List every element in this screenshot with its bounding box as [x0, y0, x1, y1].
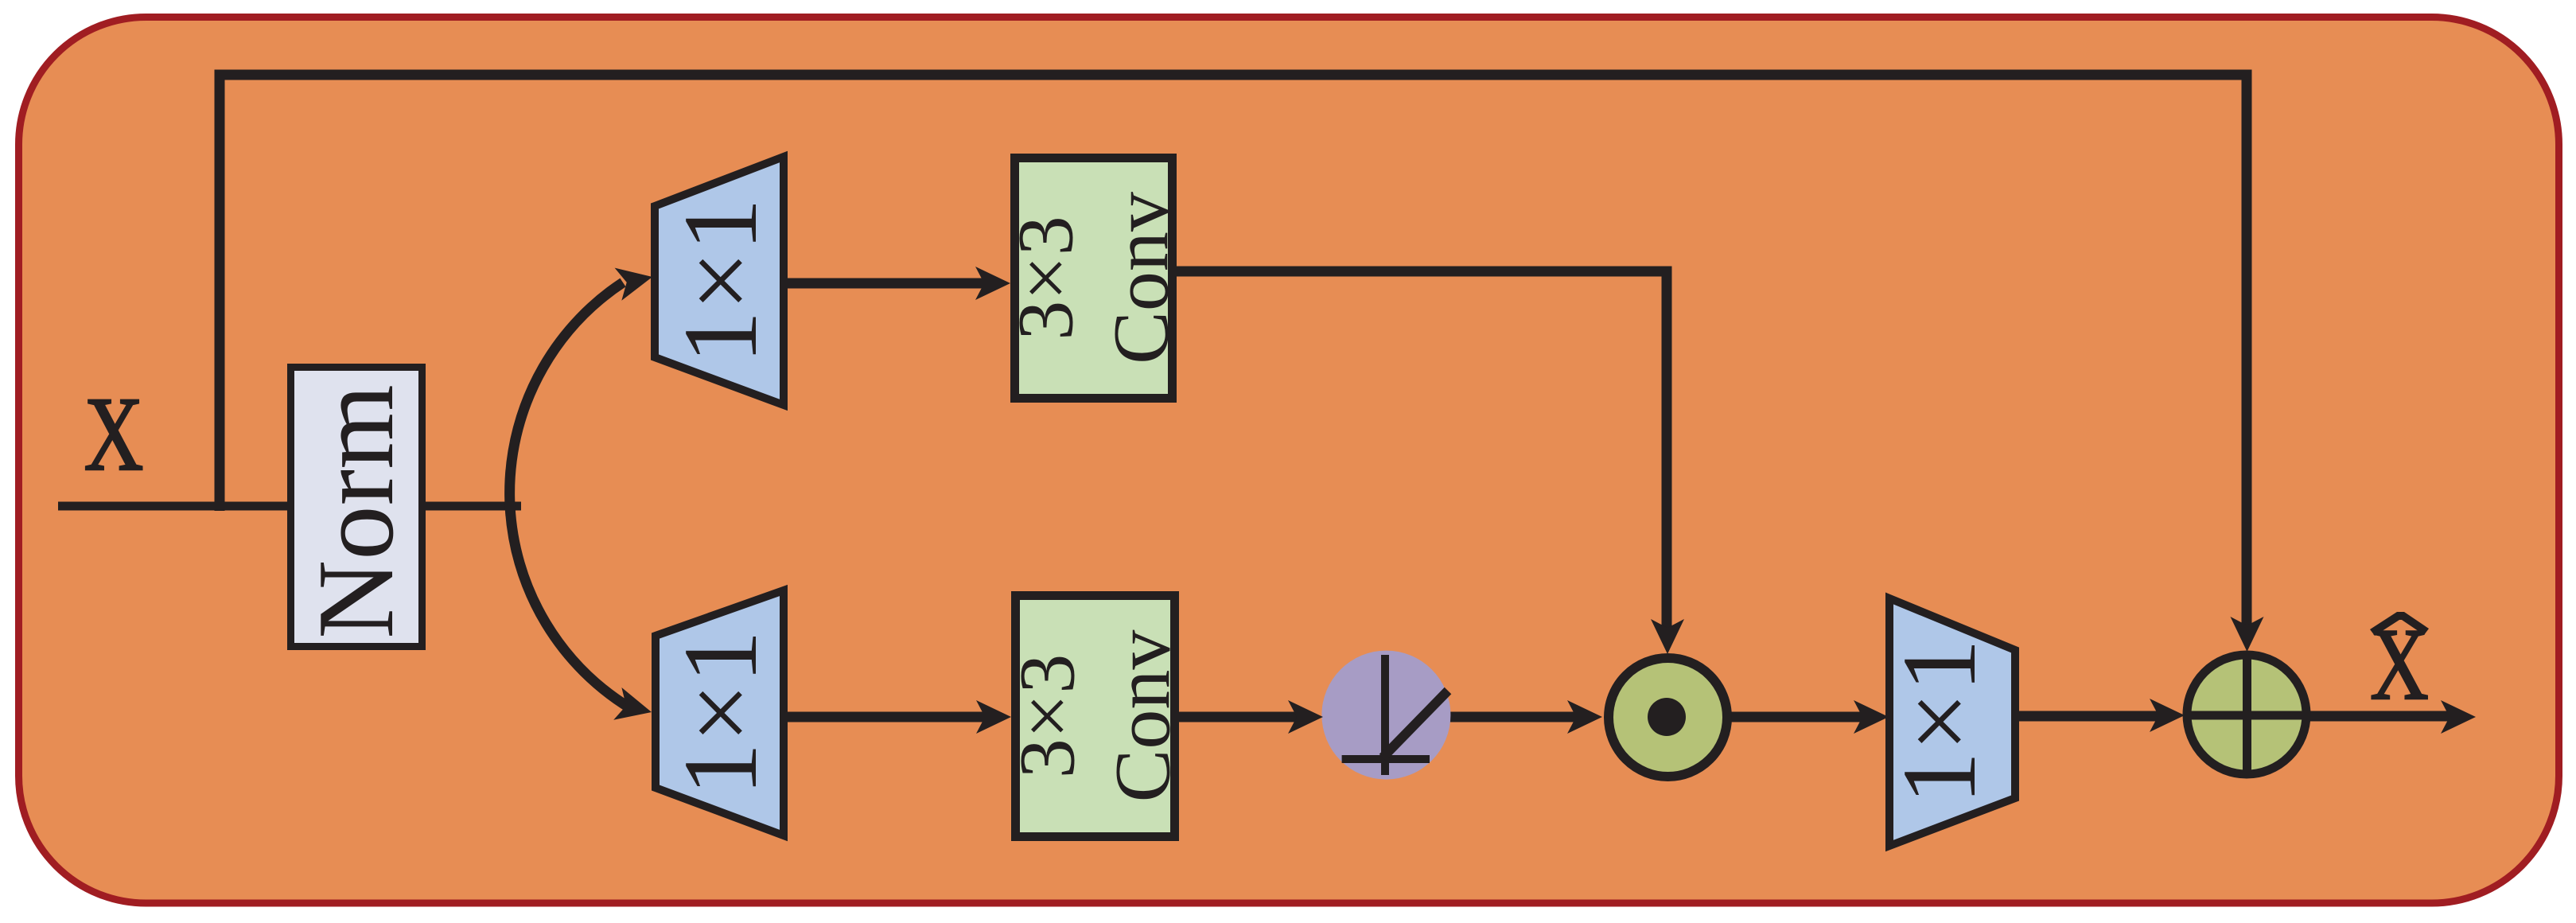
svg-text:X: X [84, 376, 144, 493]
svg-text:3×3: 3×3 [1002, 216, 1090, 340]
svg-text:1×1: 1×1 [1880, 639, 1998, 804]
svg-text:Conv: Conv [1097, 192, 1185, 364]
svg-text:1×1: 1×1 [661, 198, 779, 364]
svg-text:Norm: Norm [295, 384, 416, 639]
svg-text:Conv: Conv [1099, 630, 1187, 803]
svg-text:3×3: 3×3 [1003, 654, 1091, 778]
svg-text:1×1: 1×1 [661, 630, 779, 796]
